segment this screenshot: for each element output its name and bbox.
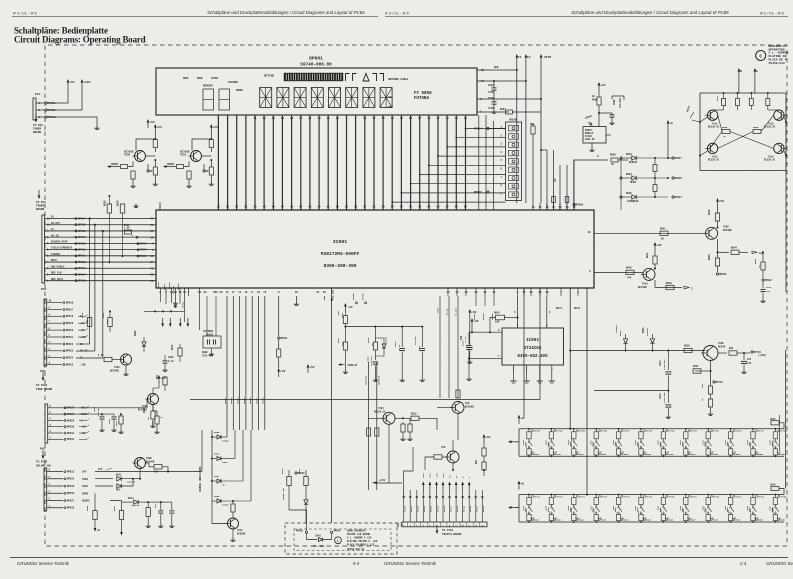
resistor R549 1K <box>750 92 752 94</box>
key return net KEY2 <box>586 288 588 495</box>
wire SENSA down to R667 <box>110 501 122 512</box>
option diode row 3 LOUDNESS <box>620 196 622 198</box>
keyboard cell CD2 row B <box>730 494 732 496</box>
net pin28 column with ground <box>295 296 297 302</box>
transistor T604 BC328-25 <box>383 412 395 424</box>
vertical net VOL LED <box>331 288 333 523</box>
wire P6C riser 1 bend up <box>404 447 413 497</box>
resistor R543 on service net <box>375 428 379 436</box>
resistor R644b <box>119 416 123 424</box>
keyboard row B input arrow <box>512 507 519 509</box>
volume LED board inner dashed outline <box>294 529 391 551</box>
supply arrow +5V at T610 <box>654 246 656 252</box>
net RC-OUT from IC601 <box>457 296 459 398</box>
P2C branch wire to R637 <box>94 224 96 226</box>
keyboard cell CD row B <box>551 494 553 496</box>
capacitor C611 right edge <box>761 288 766 290</box>
input arrow SMUX to T614 <box>111 166 118 168</box>
node MP at T600 emitter <box>203 170 205 172</box>
wire pin24 to ground right <box>323 296 325 300</box>
IC601 top pins right section <box>532 203 534 210</box>
wire display pin routing right of bus 2 <box>485 115 487 210</box>
resistor R643 collector T609 <box>715 213 719 221</box>
keyboard row A right end resistor <box>771 421 779 425</box>
IC603 ground <box>468 358 470 377</box>
supply arrow +5V at IC603 <box>471 322 473 328</box>
P6C riser arrows and labels <box>403 496 405 498</box>
T605 emitter network <box>710 361 712 383</box>
keyboard cell SX02 row A <box>551 428 553 430</box>
wire T606 emitter down <box>457 414 459 441</box>
diode D610 1N4148 parallel <box>382 344 386 348</box>
resistor R518 1M <box>374 327 376 342</box>
T615 emitter <box>232 529 234 538</box>
base wire T602 <box>140 398 146 400</box>
net from IC601 pin down x524 <box>523 288 525 370</box>
P3C row MP621 +18V <box>47 336 62 338</box>
flipflop emitter junctions <box>699 121 701 123</box>
display DP601 outline <box>156 68 477 115</box>
transistor T614 BC558B <box>135 151 146 162</box>
resistor R672 <box>482 448 486 456</box>
supply arrow +5V right of cluster <box>469 313 471 319</box>
keyboard cell SX17 row A <box>685 428 687 430</box>
transistor T611 BC338-25 <box>707 110 717 120</box>
scan noise overlay <box>0 0 1 1</box>
node MP643 row STEREO <box>137 255 139 257</box>
keyboard cell BAND row A <box>640 428 642 430</box>
resistor R659 to ground <box>708 399 712 407</box>
flipflop bottom rail <box>700 170 786 172</box>
resistor base T601 <box>104 357 112 361</box>
supply arrow +5V at T614 <box>154 128 156 134</box>
wire long net to T605 base <box>570 350 705 352</box>
resistor R515 emitter T602 <box>152 405 154 412</box>
P2C row DA-IN to IC601 pin 38 <box>45 236 156 238</box>
P2C branch wire to R636 <box>89 218 91 220</box>
wire P5C THD1 to diode D612 <box>95 485 113 487</box>
arrow EURO output <box>338 363 342 366</box>
keyboard row B bottom rail <box>519 521 784 523</box>
capacitor C602 2.2u/10V <box>373 361 379 363</box>
right edge resistor ladder entry <box>780 291 786 293</box>
P3C row MP625 -18V <box>47 364 62 366</box>
label TO P502 VOLUME BO <box>42 450 44 456</box>
wire display pin routing right of bus 1 <box>478 115 480 210</box>
transistor T605 BC640 <box>703 346 718 361</box>
wire IC601 pin9 to T610 <box>594 271 644 273</box>
wires option rows to IC601 <box>620 158 622 203</box>
P5C row MP638 <box>47 507 63 509</box>
node MP at T614 emitter <box>147 170 149 172</box>
keyboard cell FREQ row A <box>752 428 754 430</box>
resistor R547 1K <box>723 92 725 94</box>
wire P5C THD2 to diode D611 <box>95 478 113 480</box>
supply arrow E <box>754 72 756 78</box>
wire P3C DA-IN to P2C branch <box>76 350 95 352</box>
P3C row MP616 <box>47 302 62 304</box>
diode D608 PHONO row <box>217 499 221 503</box>
inductor L601 22uH <box>344 312 346 316</box>
resistor R562 between option rows <box>653 185 657 192</box>
resistor R671 base T607 <box>434 455 442 459</box>
resistor R646 emitter pulldown <box>717 252 719 258</box>
resistor emitter T614 <box>154 160 156 167</box>
supply pin -VFTD <box>540 58 542 64</box>
capacitor C601b <box>112 416 117 418</box>
input arrow SMUX to T600 <box>167 166 174 168</box>
transistor T606 BC558B <box>452 402 464 414</box>
resistor R663 base feed <box>210 138 212 140</box>
P3C row MP620 -8V <box>47 329 62 331</box>
resistor R512 <box>178 348 182 356</box>
P2C row ANT/CABLE to IC601 pin 78 <box>45 267 156 269</box>
keyboard cell CANCEL row A <box>707 428 709 430</box>
label TO P402 TONE BOARD <box>42 372 44 378</box>
diode D602 1N4148 <box>142 342 146 346</box>
P3C row MP619 +8V <box>47 322 62 324</box>
node MP642 row FIELD-STRENGTH <box>137 249 139 251</box>
P2C row CL to IC601 pin 27 <box>45 230 156 232</box>
keyboard cell TUNER row B <box>775 494 777 496</box>
connector P6C housing <box>402 522 487 527</box>
P3C row MP622 CE <box>47 343 62 345</box>
IR receiver module IC602 <box>583 127 606 144</box>
node MP569 power led <box>295 472 297 474</box>
net RC-IN from IC601 <box>448 296 450 398</box>
resistor R514 <box>163 377 167 385</box>
P2C row RDS CLK to IC601 pin 23 <box>45 273 156 275</box>
transistor T612 BC338-25 <box>774 110 784 120</box>
LED indicator circle L <box>335 537 342 544</box>
wire MP648 net down <box>288 497 290 510</box>
wire rail y=326.6 <box>345 326 422 328</box>
IC603 bottom pins to ground <box>513 365 515 381</box>
capacitor C613 470u/20V <box>667 351 669 371</box>
display tuning glyphs <box>346 74 350 82</box>
diode D606 TAPE row <box>211 458 213 460</box>
keyboard row A input arrow <box>512 441 519 443</box>
resistor R676 at T608 <box>146 462 153 464</box>
IC602 ground <box>591 143 593 148</box>
resistor R662 base feed <box>154 138 156 140</box>
resistor R653 pulldown <box>401 424 405 432</box>
horizontal junction wire y311 <box>144 310 185 312</box>
P2C row SEARCH-STOP to IC601 pin 4 <box>45 242 156 244</box>
junction at 24V rail <box>167 471 169 473</box>
P6C riser wires <box>404 490 483 522</box>
wires bottom right pins short stubs with MP labels <box>475 296 477 306</box>
supply arrow +5V above service nets <box>307 368 309 374</box>
resistor emitter T600 <box>210 160 212 167</box>
right vertical rail down page edge <box>785 171 787 293</box>
keyboard cell S617 row B <box>663 494 665 496</box>
resistor R656 at T605 base <box>684 348 692 352</box>
supply arrow +24V at R609 <box>598 86 600 92</box>
keyboard cell AU row B <box>640 494 642 496</box>
wires VFD rails to IC601 top pins <box>546 150 548 210</box>
row A right rail to KEY net <box>760 422 766 424</box>
transistor T614 BC338-25 <box>774 143 784 153</box>
P3C row MP617 <box>47 308 62 310</box>
resistor R654 pulldown <box>408 424 412 432</box>
transistor T610 BC548B <box>643 268 655 280</box>
P4C row MP628 VOL2 <box>48 413 63 415</box>
node MP701 <box>713 381 715 383</box>
display memory segment 1 <box>203 89 214 110</box>
keyboard row B top rail <box>519 494 784 496</box>
keyboard row B right end resistor <box>771 486 779 490</box>
net STOP from IC601 <box>439 296 441 398</box>
wire KEY1 rail to row A <box>569 428 571 430</box>
vertical net MP571 <box>368 362 370 490</box>
keyboard cell SX12 row B <box>528 494 530 496</box>
supply arrow +5V at P1C <box>67 83 69 89</box>
option diode row 2 SPAB <box>620 177 622 179</box>
resistor R641 in pin10 wire <box>660 231 668 235</box>
resistor R636 1K on branch <box>87 318 91 327</box>
wire KEY2 rail to row B <box>586 494 588 496</box>
transistor T601 BC548B <box>121 354 132 365</box>
diode D605 TUNER row <box>211 436 213 438</box>
power led feed resistors <box>287 477 291 486</box>
node MP740 <box>751 351 753 353</box>
supply arrow D <box>738 72 740 78</box>
volume LED board dashed outline <box>285 523 397 554</box>
capacitor C612 <box>743 353 745 360</box>
output arrow C <box>684 286 689 289</box>
capacitor C605 0.1u <box>469 318 471 346</box>
wire IC601 to IC603 SDA <box>517 296 519 328</box>
resistor R651 right edge <box>761 262 765 270</box>
P5C row MP634 THD2 <box>47 478 63 480</box>
wire P3C CL to P2C branch <box>76 357 103 359</box>
P2C branch wire to C609 <box>102 230 104 232</box>
stamp circle top right <box>756 51 766 61</box>
connector P4C bracket <box>45 404 48 443</box>
P5C row MP633 24V <box>47 471 63 473</box>
node MP648 <box>305 531 307 533</box>
net from IC601 pin down x540 <box>539 288 541 400</box>
right edge rail wires <box>783 429 785 495</box>
node MP696 on DA-IN <box>136 236 138 238</box>
T610 output to arrow C <box>654 268 656 270</box>
signal down arrows E D F3 F4 <box>162 318 164 324</box>
P4C row MP632 <box>48 438 63 440</box>
transistor T602 BC548B <box>148 394 159 405</box>
display memory segment 2 <box>219 89 230 110</box>
connector P3C bracket <box>44 299 47 366</box>
resistor R550 1K <box>767 92 769 94</box>
wire staircase from bus to resistor array R650 <box>466 128 506 130</box>
header underline right page <box>385 16 788 18</box>
display signal-strength bargraph <box>284 73 343 81</box>
net MP568 column <box>278 296 280 336</box>
cross coupling wires <box>718 115 722 131</box>
keyboard cell A row B <box>618 494 620 496</box>
wire P5C 24V long to right <box>95 471 202 473</box>
diode D605 1N4002 <box>650 339 654 343</box>
resistor R517 10K <box>344 327 346 342</box>
supply arrow +10V at P1C <box>81 83 83 89</box>
resistor R510 column <box>317 296 319 300</box>
IC603 left pin 7 wire <box>469 357 502 359</box>
wire P4C row2 to C601 <box>63 413 114 415</box>
capacitor C604 47u/10V <box>421 327 423 347</box>
keyboard cell DISPLAY row A <box>775 428 777 430</box>
resistor R660 collector load <box>153 140 157 148</box>
T601 emitter ground <box>125 365 127 372</box>
right margin rail 2 to keyboard rows <box>779 415 781 451</box>
transistor T600 BC558B <box>191 151 202 162</box>
resistor R668 RC network <box>146 508 150 517</box>
P3C row MP618 B <box>47 315 62 317</box>
keyboard cell CD? row A <box>528 428 530 430</box>
resistor R pair above IC601 <box>552 197 556 203</box>
diode D607 CD row <box>211 480 213 482</box>
resistor R649 output <box>666 285 674 289</box>
resistor R666 <box>93 511 97 520</box>
junction dots P2C rows <box>102 230 104 232</box>
option diode row 1 REPEAT <box>620 157 622 159</box>
capacitor C608 0.1U <box>143 352 145 360</box>
wire lower rail to C614 <box>594 390 668 392</box>
transistor T607 BC558B <box>447 451 459 463</box>
resistor R637 10K on branch <box>108 318 112 327</box>
resistor R673 <box>482 462 486 470</box>
wire net J from IC601 top to option diodes <box>573 159 575 160</box>
wire P4C row1 to T602 base <box>63 407 147 409</box>
node MP640 row SEARCH-STOP <box>137 243 139 245</box>
keyboard row A bottom rail <box>519 455 784 457</box>
wire P1C pin3 to ground <box>57 117 97 126</box>
P4C row MP629 C <box>48 419 63 421</box>
node MP566 top <box>365 302 367 304</box>
P2C row DA-OUT to IC601 pin 36 <box>45 224 156 226</box>
P3C row MP623 DA-IN <box>47 350 62 352</box>
wire P3C CE to P2C branch <box>76 343 90 345</box>
node MP644 <box>331 531 333 533</box>
flipflop top rail <box>700 92 786 94</box>
node MP565 top <box>355 302 357 304</box>
output arrow Cap <box>752 251 757 254</box>
long route rail y406 <box>196 405 524 407</box>
P4C row MP631 +8V <box>48 432 63 434</box>
node MP698 right edge <box>762 279 764 281</box>
diode D606 1N4002 on rail <box>623 339 627 343</box>
supply arrow +5V at T600 <box>210 128 212 134</box>
P5C row MP637 SENSA <box>47 500 63 502</box>
cross coupling resistor R545 1K <box>722 130 730 134</box>
keyboard row A top rail <box>519 428 784 430</box>
keyboard cell MEMO row A <box>663 428 665 430</box>
capacitor C609 at IC603 <box>468 332 470 344</box>
wire IC601 pin18 down <box>199 296 201 330</box>
T605 output right <box>716 352 728 354</box>
resistor R652 <box>411 416 419 420</box>
keyboard cell TIME row B <box>752 494 754 496</box>
wires source indicator columns to IC601 nets <box>226 429 228 431</box>
resistor R645b 1K <box>155 416 159 424</box>
transistor T608 BC548B <box>135 458 146 469</box>
keyboard cell PROG row B <box>685 494 687 496</box>
P4C row MP627 VOL1 <box>48 407 63 409</box>
keyboard cell PHONO row B <box>573 494 575 496</box>
flipflop left rail <box>699 93 701 171</box>
resistor pulldown at T614 <box>131 171 135 179</box>
keyboard cell SEEK row A <box>730 428 732 430</box>
T605 collector to +24 rail up <box>716 330 718 347</box>
T601 collector up <box>131 344 133 356</box>
cross coupling resistor R546 1K <box>753 130 761 134</box>
resistor R635 on DA-IN row <box>125 230 132 234</box>
capacitor C614 470u/20V <box>667 390 669 392</box>
wire T604 collector to +24 rail <box>388 424 390 483</box>
IC601 microcontroller M38172M4-090FF <box>156 210 594 288</box>
keyboard cell SX04 row A <box>595 428 597 430</box>
P2C row RDS DATA to IC601 pin 21 <box>45 280 156 282</box>
key return net KEY1 <box>569 288 571 429</box>
transistor T613 BC338-25 <box>707 143 717 153</box>
P5C row MP635 THD1 <box>47 485 63 487</box>
resistor R645 in pin9 wire <box>626 270 634 274</box>
header underline left page <box>12 16 378 18</box>
resistor R660 output <box>729 351 737 355</box>
IC603 EEPROM ST24C04 <box>502 328 564 365</box>
supply arrow +5V at T609 <box>717 202 719 208</box>
P5C row MP636 SPKR <box>47 492 63 494</box>
wire +24V feed arrow <box>372 481 377 484</box>
resistor R561 between option rows <box>653 165 657 172</box>
wire T609 collector output <box>717 227 719 229</box>
P3C row MP624 CL <box>47 357 62 359</box>
T606 collector resistor R655 <box>457 396 459 402</box>
resistor pulldown at T600 <box>187 171 191 179</box>
wire P6C riser 2 bend <box>410 455 419 497</box>
resistor R669 at T615 <box>232 512 234 518</box>
resistor R542 on service net <box>366 428 370 436</box>
supply arrow +A for option diodes <box>667 124 669 130</box>
arrow +B down <box>94 528 97 532</box>
flipflop right rail <box>785 93 787 171</box>
keyboard cell MONO row A <box>618 428 620 430</box>
resistor R661 collector load <box>209 140 213 148</box>
resistor R657 <box>695 370 711 372</box>
diode D642 power led <box>304 500 308 504</box>
supply pin F1 <box>516 58 518 64</box>
capacitor C606 47u/10V <box>598 112 600 114</box>
P4C row MP630 -8V <box>48 426 63 428</box>
wire net to T604 <box>523 370 525 418</box>
long route rail y399 <box>199 330 201 400</box>
supply arrow +5V at T606 <box>483 438 485 444</box>
node MP560 <box>573 203 575 205</box>
wire display pin routing right of bus 3 <box>493 121 495 210</box>
supply pin F2 <box>525 58 527 64</box>
wire bus between display and IC601 <box>218 115 465 210</box>
resistor R644 output <box>731 250 739 254</box>
connector P2C bracket <box>42 215 45 283</box>
transistor T609 BC548B <box>706 227 718 239</box>
node MP634 <box>487 127 489 129</box>
resistor R647 collector T610 <box>653 256 657 264</box>
base feed T604 from left <box>369 404 384 406</box>
footer rule <box>10 557 788 559</box>
keyboard cell S619 row B <box>707 494 709 496</box>
wire IC601 pin10 to T609 <box>594 232 705 234</box>
resistor R667 <box>119 511 123 520</box>
capacitor C601 47u/10V <box>101 414 103 416</box>
